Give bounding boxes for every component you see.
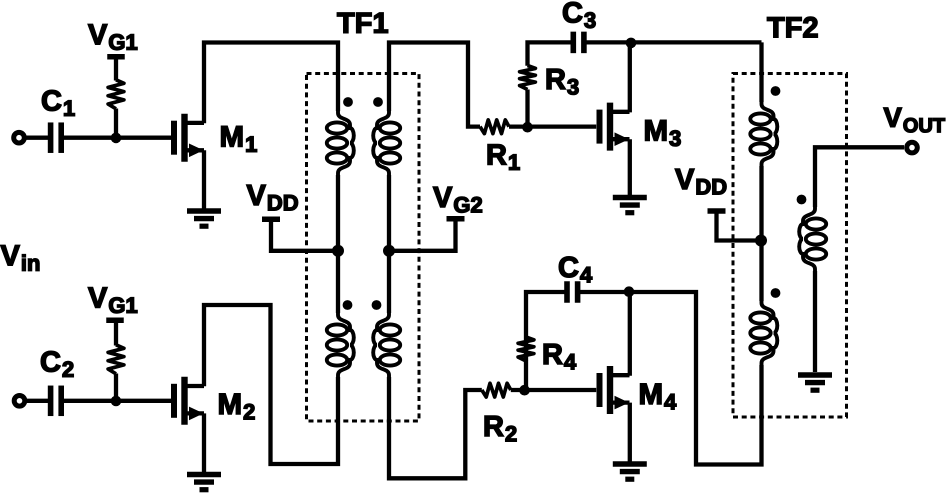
label VG1 top: [88, 24, 137, 49]
wire TF1 secondary upper to center tap: [387, 175, 391, 251]
wire gate node to bias resistor bottom: [114, 374, 118, 402]
capacitor C2: [51, 386, 62, 417]
label M3: [645, 120, 680, 146]
wire TF1 secondary lower to R2: [389, 377, 482, 478]
capacitor C4: [567, 281, 578, 303]
transistor M3: [600, 103, 630, 151]
wire input to C1: [26, 136, 48, 140]
resistor R1: [480, 120, 509, 134]
label VG2: [433, 187, 482, 212]
TF1 primary lower winding: [327, 312, 354, 378]
transformer TF2 dashed box: [733, 74, 847, 418]
wire drain node to TF2: [631, 40, 762, 44]
wire TF2 secondary to Vout: [815, 147, 904, 207]
wire R2 to M4 gate: [511, 388, 596, 392]
wire gate node to bias resistor: [114, 109, 118, 138]
output terminal Vout: [907, 142, 918, 153]
wire M1 drain to TF1 primary: [204, 43, 338, 124]
VDD supply bar (TF2): [708, 208, 726, 214]
junction TF1 primary center tap: [332, 245, 344, 257]
resistor R3: [520, 66, 536, 90]
wire M1 source to ground: [202, 150, 206, 208]
wire C3 to drain node: [584, 40, 631, 44]
wire gate node to R4: [524, 361, 528, 391]
TF2 secondary polarity dot: [797, 195, 807, 205]
wire C2 to M2 gate: [64, 399, 171, 403]
wire R1 to M3 gate: [509, 124, 596, 128]
wire resistor to VG1 bar: [114, 57, 118, 81]
wire C4 to drain node bottom: [580, 290, 629, 294]
label R4: [544, 344, 576, 369]
wire M3 source to ground: [628, 139, 632, 195]
label M1: [221, 126, 256, 152]
input terminal bottom (Vin-): [14, 396, 25, 407]
TF2 primary lower winding: [750, 300, 777, 366]
wire TF1 secondary upper to R1: [389, 43, 480, 127]
label VDD TF1: [247, 185, 298, 210]
resistor R4: [518, 337, 534, 361]
wire TF1 primary upper to center tap: [336, 175, 340, 251]
label VDD TF2: [675, 169, 726, 194]
label R1: [488, 145, 520, 170]
wire TF2 primary upper to center tap: [759, 166, 763, 241]
wire resistor to VG1 bar bottom: [114, 322, 118, 346]
wire VG2 to TF1 secondary tap: [389, 221, 456, 251]
wire TF1 primary lower to M2 drain: [204, 305, 338, 464]
junction M1 gate node: [111, 133, 122, 144]
junction M3 gate node: [522, 122, 533, 133]
TF1 primary upper polarity dot: [343, 97, 353, 107]
wire TF1 secondary tap to lower winding: [387, 251, 391, 313]
wire R3 to C3: [528, 42, 572, 65]
wire C1 to M1 gate: [64, 136, 171, 140]
label M2: [219, 394, 254, 420]
TF2 primary upper polarity dot: [771, 86, 781, 96]
VG1 supply bar (top): [107, 54, 125, 60]
input terminal top (Vin+): [14, 132, 25, 143]
label M4: [640, 384, 676, 410]
TF1 secondary upper polarity dot: [373, 97, 383, 107]
TF1 secondary upper winding: [373, 110, 400, 176]
label TF1: [337, 13, 387, 33]
resistor VG1 bias (bottom): [108, 345, 124, 374]
label R3: [547, 69, 578, 94]
junction M4 drain node: [624, 286, 635, 297]
wire TF2 tap to lower winding: [759, 241, 763, 302]
wire M4 source to ground: [628, 403, 632, 462]
junction M4 gate node: [519, 385, 530, 396]
ground under M1: [187, 211, 221, 226]
VDD supply bar (TF1): [262, 217, 280, 223]
wire input to C2: [27, 399, 49, 403]
wire TF2 primary top: [759, 42, 763, 102]
wire M4 drain up: [628, 292, 632, 376]
ground under M3: [613, 198, 647, 213]
TF2 secondary winding: [799, 206, 826, 272]
transistor M2: [174, 377, 204, 425]
wire drain node to TF2 lower: [629, 292, 762, 465]
label Vout: [884, 108, 945, 132]
TF1 primary lower polarity dot: [343, 300, 353, 310]
junction M2 gate node: [111, 396, 122, 407]
VG2 supply bar: [447, 216, 465, 222]
transistor M4: [600, 366, 630, 414]
label C1: [42, 90, 74, 116]
resistor R2: [482, 383, 511, 397]
transistor M1: [174, 114, 204, 162]
TF1 secondary lower polarity dot: [372, 300, 382, 310]
label C3: [563, 2, 595, 28]
TF1 secondary lower winding: [373, 312, 400, 378]
label C2: [41, 351, 73, 377]
ground TF2 secondary: [798, 375, 832, 390]
label R2: [485, 416, 516, 441]
label TF2: [767, 17, 817, 37]
transformer TF1 dashed box: [307, 74, 420, 422]
label C4: [559, 257, 592, 283]
label Vin: [1, 245, 39, 270]
VG1 supply bar (bottom): [106, 318, 124, 324]
label VG1 bottom: [88, 288, 137, 313]
wire M3 drain up: [628, 42, 632, 112]
TF2 primary upper winding: [750, 101, 777, 167]
capacitor C1: [51, 122, 62, 153]
ground under M4: [613, 464, 647, 479]
junction M3 drain node: [626, 38, 637, 49]
wire VDD to TF1 center tap: [271, 221, 338, 251]
wire VDD to TF2 center tap: [717, 213, 762, 241]
TF1 primary upper winding: [327, 110, 354, 176]
junction TF2 primary center tap: [755, 235, 767, 247]
wire M2 source to ground: [202, 413, 206, 472]
wire TF2 secondary to ground: [813, 271, 817, 372]
wire TF1 center tap to lower winding: [336, 251, 340, 313]
wire R4 to C4: [526, 292, 565, 361]
wire gate node to R3: [525, 90, 529, 127]
resistor VG1 bias (top): [108, 80, 124, 109]
capacitor C3: [573, 32, 584, 54]
ground under M2: [187, 475, 221, 490]
TF2 primary lower polarity dot: [771, 288, 781, 298]
junction TF1 secondary center tap: [383, 245, 395, 257]
